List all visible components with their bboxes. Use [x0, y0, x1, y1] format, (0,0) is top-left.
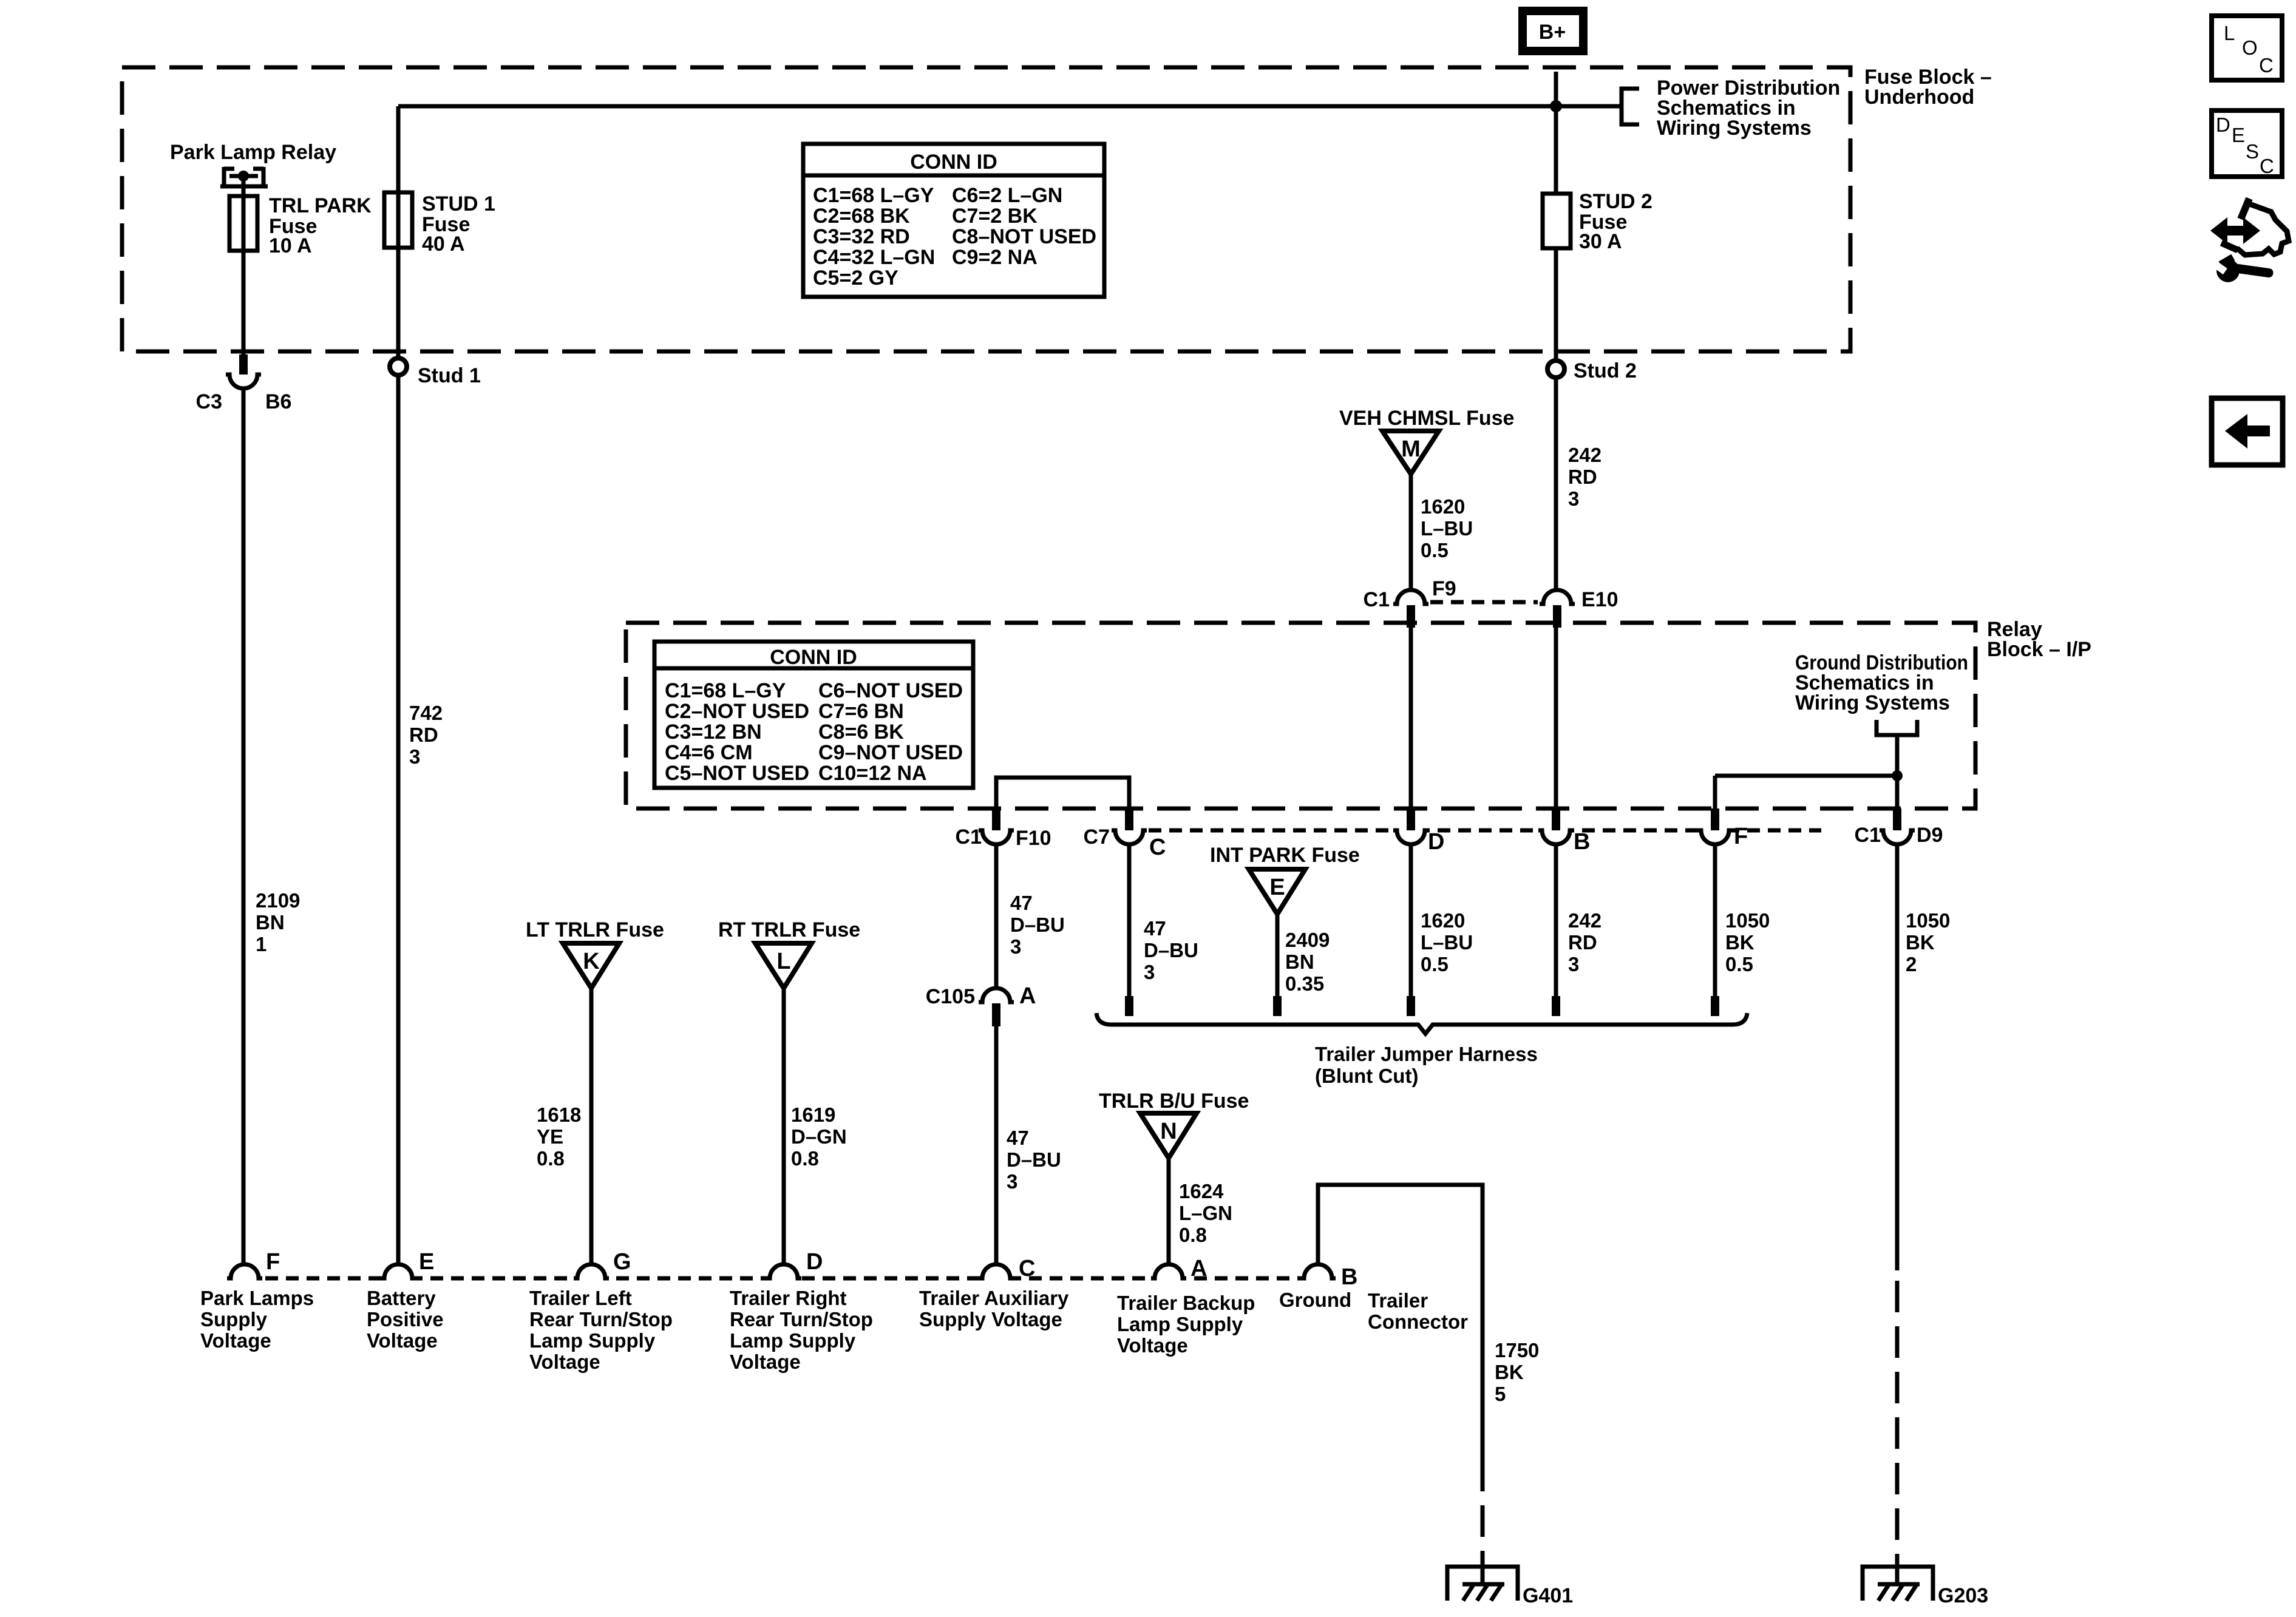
- svg-text:3: 3: [409, 745, 420, 768]
- svg-text:5: 5: [1495, 1383, 1506, 1405]
- svg-text:C7: C7: [1084, 825, 1110, 849]
- connector trailer pin G left turn: [574, 1249, 631, 1278]
- svg-text:0.8: 0.8: [1179, 1224, 1207, 1246]
- svg-text:Ground: Ground: [1279, 1289, 1351, 1311]
- svg-text:F: F: [1734, 824, 1748, 849]
- connector C1 pin D9: [1855, 808, 1943, 847]
- wire 47 D-BU 3 from C1 F10: [996, 844, 1065, 988]
- wire dotted connector row F9 to E10: [1430, 600, 1538, 605]
- connector trailer pin E battery: [381, 1249, 434, 1278]
- connector C1 pin F10: [956, 808, 1051, 850]
- fuse INT PARK triangle E: [1210, 844, 1360, 914]
- svg-text:3: 3: [1010, 935, 1021, 958]
- svg-text:742: 742: [409, 702, 443, 724]
- svg-text:1750: 1750: [1495, 1339, 1539, 1361]
- label trailer right rear turn stop lamp supply voltage: [730, 1287, 873, 1373]
- svg-text:D: D: [1428, 829, 1444, 855]
- svg-text:C4=6 CM: C4=6 CM: [665, 741, 753, 764]
- svg-text:40 A: 40 A: [422, 232, 465, 256]
- svg-text:F: F: [266, 1249, 280, 1275]
- svg-text:RD: RD: [1568, 931, 1597, 954]
- svg-text:C1=68 L–GY: C1=68 L–GY: [813, 184, 934, 207]
- svg-text:C3: C3: [196, 390, 222, 413]
- svg-text:C9–NOT USED: C9–NOT USED: [818, 741, 963, 764]
- svg-text:Connector: Connector: [1368, 1310, 1468, 1333]
- connector trailer pin C auxiliary: [979, 1256, 1035, 1281]
- svg-text:BK: BK: [1906, 931, 1935, 954]
- svg-text:TRL PARK: TRL PARK: [269, 194, 372, 217]
- svg-text:47: 47: [1010, 892, 1033, 914]
- svg-text:B+: B+: [1539, 21, 1566, 44]
- svg-text:C8–NOT USED: C8–NOT USED: [952, 225, 1096, 248]
- svg-text:C: C: [1019, 1256, 1035, 1281]
- svg-text:Trailer: Trailer: [1368, 1289, 1428, 1312]
- icon hand with double arrow and wrench: [2210, 198, 2289, 282]
- svg-text:E: E: [419, 1249, 434, 1275]
- svg-text:Supply: Supply: [200, 1308, 268, 1331]
- svg-text:Trailer Left: Trailer Left: [529, 1287, 632, 1309]
- label Relay Block - I/P: [1987, 618, 2091, 661]
- node junction dot ground branch: [1892, 770, 1903, 781]
- svg-text:3: 3: [1568, 487, 1579, 510]
- svg-text:VEH CHMSL Fuse: VEH CHMSL Fuse: [1339, 407, 1514, 430]
- svg-text:C: C: [2259, 54, 2274, 76]
- wire 1620 L-BU 0.5 chmsl feed: [1411, 474, 1473, 588]
- wire dotted trailer connector row: [245, 1276, 1318, 1281]
- svg-text:Trailer Jumper Harness: Trailer Jumper Harness: [1315, 1043, 1538, 1065]
- svg-text:B: B: [1341, 1264, 1357, 1290]
- svg-text:0.35: 0.35: [1285, 972, 1324, 995]
- svg-text:D9: D9: [1917, 824, 1943, 847]
- wire B+ feed vertical into fuse block: [1554, 72, 1558, 194]
- svg-text:Block – I/P: Block – I/P: [1987, 638, 2091, 661]
- svg-text:RT TRLR Fuse: RT TRLR Fuse: [718, 918, 860, 941]
- svg-text:Park Lamp Relay: Park Lamp Relay: [170, 141, 336, 164]
- svg-text:Wiring Systems: Wiring Systems: [1657, 117, 1812, 140]
- connector pin B: [1538, 808, 1590, 855]
- svg-text:1050: 1050: [1906, 909, 1950, 932]
- icon LOC box: [2212, 16, 2282, 80]
- svg-text:1620: 1620: [1421, 495, 1465, 518]
- svg-text:47: 47: [1007, 1127, 1029, 1149]
- svg-text:1618: 1618: [537, 1103, 581, 1126]
- svg-text:Voltage: Voltage: [730, 1351, 801, 1373]
- ground G401 symbol: [1447, 1567, 1573, 1607]
- wire 1050 BK 2 to G203: [1897, 844, 1950, 1584]
- wire stud2 through relay block to pin B: [1554, 628, 1558, 808]
- svg-text:C1: C1: [956, 825, 982, 849]
- svg-text:0.8: 0.8: [537, 1147, 565, 1170]
- svg-text:Voltage: Voltage: [367, 1329, 438, 1352]
- svg-text:B: B: [1574, 829, 1590, 855]
- wire relay to TRL PARK fuse: [242, 176, 246, 354]
- fuse VEH CHMSL triangle M: [1339, 407, 1514, 474]
- svg-text:C6=2 L–GN: C6=2 L–GN: [952, 184, 1062, 207]
- svg-text:C5=2 GY: C5=2 GY: [813, 266, 898, 290]
- wire 1619 D-GN 0.8 trailer right: [784, 988, 847, 1265]
- svg-text:3: 3: [1568, 953, 1579, 975]
- svg-text:C2–NOT USED: C2–NOT USED: [665, 700, 809, 723]
- svg-text:3: 3: [1144, 961, 1155, 983]
- label Ground Distribution Schematics in Wiring Systems: [1795, 651, 1968, 714]
- svg-text:0.5: 0.5: [1421, 953, 1449, 975]
- svg-text:C105: C105: [926, 985, 975, 1008]
- svg-text:D–BU: D–BU: [1144, 939, 1198, 961]
- wire 2109 BN 1 park lamps supply: [243, 388, 300, 1265]
- svg-text:Battery: Battery: [367, 1287, 436, 1309]
- svg-text:Voltage: Voltage: [200, 1329, 271, 1352]
- svg-text:C10=12 NA: C10=12 NA: [818, 762, 927, 785]
- connector trailer pin A backup: [1151, 1256, 1207, 1281]
- svg-text:C: C: [2260, 155, 2274, 177]
- svg-text:G203: G203: [1938, 1584, 1988, 1607]
- connector C105 pin A: [926, 983, 1036, 1026]
- fuse STUD 1 40A: [384, 192, 495, 256]
- fuse TRL PARK 10A: [229, 194, 372, 257]
- table CONN ID fuse block underhood: [803, 144, 1104, 297]
- ground G203 symbol: [1863, 1567, 1988, 1607]
- fuse TRLR B/U triangle N: [1099, 1090, 1249, 1158]
- svg-text:Stud 2: Stud 2: [1574, 359, 1637, 382]
- svg-text:RD: RD: [1568, 466, 1597, 488]
- fuse block underhood dashed enclosure: [122, 67, 1850, 351]
- svg-text:BK: BK: [1725, 931, 1754, 954]
- svg-text:K: K: [583, 949, 600, 974]
- svg-text:1619: 1619: [791, 1103, 835, 1126]
- svg-text:D–BU: D–BU: [1007, 1148, 1061, 1171]
- fuse LT TRLR triangle K: [526, 918, 664, 988]
- svg-text:C9=2 NA: C9=2 NA: [952, 246, 1038, 269]
- wire ground branch drop to pin F: [1713, 776, 1717, 808]
- svg-text:STUD 2: STUD 2: [1579, 190, 1652, 213]
- svg-text:L–BU: L–BU: [1421, 517, 1473, 540]
- wire 47 D-BU 3 to trailer auxiliary: [996, 1026, 1061, 1265]
- svg-text:0.5: 0.5: [1725, 953, 1753, 975]
- label Power Distribution Schematics in Wiring Systems: [1657, 76, 1840, 140]
- svg-text:G401: G401: [1523, 1584, 1573, 1607]
- svg-text:C4=32 L–GN: C4=32 L–GN: [813, 246, 935, 269]
- icon DESC box: [2212, 110, 2282, 177]
- svg-text:(Blunt Cut): (Blunt Cut): [1315, 1065, 1418, 1087]
- svg-text:Supply Voltage: Supply Voltage: [919, 1308, 1062, 1331]
- svg-text:1050: 1050: [1725, 909, 1770, 932]
- wire bridge jumper C1-F10 to C7-C: [996, 778, 1129, 808]
- icon back arrow box: [2212, 398, 2283, 465]
- brace trailer jumper harness blunt cut: [1096, 1013, 1747, 1087]
- fuse RT TRLR triangle L: [718, 918, 860, 988]
- wire 742 RD 3 battery positive: [398, 375, 443, 1265]
- wire 242 RD 3 stud2 to relay block: [1556, 379, 1601, 588]
- node Stud 2 terminal circle: [1547, 359, 1637, 382]
- svg-text:F10: F10: [1016, 827, 1051, 850]
- svg-text:C1: C1: [1855, 824, 1881, 847]
- wire 2409 BN 0.35 blunt cut: [1273, 914, 1330, 1016]
- label trailer left rear turn stop lamp supply voltage: [529, 1287, 673, 1373]
- wire stud2 below fuse: [1554, 248, 1558, 359]
- svg-text:E: E: [2232, 124, 2245, 146]
- svg-text:3: 3: [1007, 1170, 1017, 1193]
- svg-text:C: C: [1149, 835, 1166, 860]
- wire ground branch horizontal to pin F: [1715, 774, 1897, 778]
- wire 1620 L-BU 0.5 blunt cut from D: [1407, 844, 1473, 1016]
- svg-text:L: L: [776, 949, 790, 974]
- label park lamps supply voltage: [200, 1287, 314, 1352]
- connector C3 pin B6 park lamp feed: [196, 354, 292, 413]
- svg-text:L: L: [2224, 22, 2235, 44]
- svg-text:TRLR B/U Fuse: TRLR B/U Fuse: [1099, 1090, 1249, 1113]
- svg-text:L–GN: L–GN: [1179, 1202, 1232, 1224]
- relay Park Lamp Relay contact symbol: [220, 167, 268, 186]
- svg-text:STUD 1: STUD 1: [422, 192, 495, 215]
- svg-text:RD: RD: [409, 724, 438, 746]
- svg-text:Park Lamps: Park Lamps: [200, 1287, 314, 1309]
- svg-text:O: O: [2242, 36, 2258, 59]
- node Stud 1 terminal circle: [390, 358, 481, 387]
- wire 1618 YE 0.8 trailer left: [537, 988, 591, 1265]
- svg-text:N: N: [1160, 1119, 1177, 1144]
- svg-text:47: 47: [1144, 917, 1166, 940]
- svg-text:CONN ID: CONN ID: [910, 151, 997, 174]
- svg-text:S: S: [2246, 140, 2259, 163]
- connector C7 pin C: [1084, 808, 1166, 860]
- connector trailer pin D right turn: [766, 1249, 823, 1278]
- label battery positive voltage: [367, 1287, 444, 1352]
- wire bus horizontal from stud1 branch to reference bracket: [398, 104, 1622, 109]
- svg-text:2109: 2109: [256, 889, 300, 912]
- svg-text:C1: C1: [1364, 588, 1390, 611]
- svg-text:Trailer Right: Trailer Right: [730, 1287, 847, 1309]
- svg-text:D: D: [806, 1249, 823, 1275]
- wire 47 D-BU 3 blunt cut from C7: [1125, 844, 1198, 1016]
- wire chmsl through relay block to pin D: [1409, 628, 1413, 808]
- wire 1624 L-GN 0.8 backup lamp: [1169, 1158, 1232, 1265]
- svg-text:G: G: [613, 1249, 631, 1275]
- svg-text:10 A: 10 A: [269, 234, 312, 257]
- svg-text:C5–NOT USED: C5–NOT USED: [665, 762, 809, 785]
- svg-text:BN: BN: [256, 911, 285, 934]
- wire 1050 BK 0.5 blunt cut from F: [1711, 844, 1770, 1016]
- svg-text:Trailer Backup: Trailer Backup: [1117, 1292, 1255, 1314]
- node B+ battery positive terminal: [1523, 11, 1583, 51]
- connector trailer pin F park lamps: [227, 1249, 280, 1278]
- label trailer connector: [1368, 1289, 1468, 1333]
- svg-text:Trailer Auxiliary: Trailer Auxiliary: [919, 1287, 1069, 1309]
- svg-text:L–BU: L–BU: [1421, 931, 1473, 954]
- svg-text:Voltage: Voltage: [529, 1351, 600, 1373]
- svg-text:0.8: 0.8: [791, 1147, 819, 1170]
- svg-text:INT PARK Fuse: INT PARK Fuse: [1210, 844, 1360, 867]
- svg-text:30 A: 30 A: [1579, 230, 1622, 253]
- svg-text:BN: BN: [1285, 951, 1314, 973]
- svg-text:2409: 2409: [1285, 929, 1330, 951]
- svg-text:M: M: [1401, 436, 1421, 462]
- svg-text:E10: E10: [1581, 588, 1618, 611]
- svg-text:C3=32 RD: C3=32 RD: [813, 225, 910, 248]
- svg-text:Lamp Supply: Lamp Supply: [529, 1329, 656, 1352]
- relay block I/P dashed enclosure: [626, 623, 1975, 808]
- label Fuse Block - Underhood: [1864, 66, 1992, 109]
- svg-text:Rear Turn/Stop: Rear Turn/Stop: [529, 1308, 673, 1331]
- svg-text:Rear Turn/Stop: Rear Turn/Stop: [730, 1308, 873, 1331]
- svg-text:D–BU: D–BU: [1010, 914, 1065, 936]
- wire 242 RD 3 blunt cut from B: [1552, 844, 1601, 1016]
- svg-text:YE: YE: [537, 1125, 563, 1148]
- wire ground distribution drop: [1895, 735, 1900, 808]
- svg-text:C7=6 BN: C7=6 BN: [818, 700, 904, 723]
- svg-text:Wiring Systems: Wiring Systems: [1795, 691, 1950, 714]
- wire ground 1750 BK 5 to G401: [1318, 1185, 1539, 1584]
- svg-text:2: 2: [1906, 953, 1917, 975]
- connector trailer pin B ground: [1300, 1264, 1357, 1290]
- svg-text:C6–NOT USED: C6–NOT USED: [818, 679, 963, 702]
- svg-text:CONN ID: CONN ID: [770, 646, 857, 669]
- label trailer auxiliary supply voltage: [919, 1287, 1069, 1331]
- connector pin D: [1393, 808, 1444, 855]
- svg-text:242: 242: [1568, 444, 1601, 466]
- svg-text:D: D: [2216, 114, 2230, 136]
- svg-text:Positive: Positive: [367, 1308, 444, 1331]
- wire dotted connector row along relay block bottom: [1149, 829, 1821, 833]
- svg-text:Underhood: Underhood: [1864, 86, 1974, 109]
- svg-text:242: 242: [1568, 909, 1601, 932]
- svg-text:C8=6 BK: C8=6 BK: [818, 720, 904, 744]
- svg-text:C1=68 L–GY: C1=68 L–GY: [665, 679, 786, 702]
- svg-text:BK: BK: [1495, 1361, 1524, 1383]
- svg-text:F9: F9: [1432, 577, 1456, 600]
- wire stud1 branch vertical: [396, 106, 401, 358]
- svg-text:B6: B6: [265, 390, 291, 413]
- connector pin F: [1697, 808, 1748, 849]
- svg-text:C3=12 BN: C3=12 BN: [665, 720, 762, 744]
- svg-text:Stud 1: Stud 1: [418, 364, 481, 387]
- svg-text:D–GN: D–GN: [791, 1125, 847, 1148]
- svg-text:Voltage: Voltage: [1117, 1334, 1188, 1357]
- svg-text:C7=2 BK: C7=2 BK: [952, 205, 1038, 228]
- reference bracket to power distribution schematics: [1622, 89, 1639, 124]
- label trailer backup lamp supply voltage: [1117, 1292, 1255, 1357]
- svg-text:A: A: [1019, 983, 1036, 1009]
- svg-text:1: 1: [256, 933, 267, 955]
- svg-text:Lamp Supply: Lamp Supply: [730, 1329, 856, 1352]
- svg-text:Lamp Supply: Lamp Supply: [1117, 1313, 1243, 1335]
- table CONN ID relay block: [654, 642, 973, 788]
- svg-text:1624: 1624: [1179, 1180, 1224, 1202]
- node junction dot B+ bus: [1550, 100, 1562, 112]
- svg-text:0.5: 0.5: [1421, 539, 1449, 561]
- svg-text:LT TRLR Fuse: LT TRLR Fuse: [526, 918, 664, 941]
- reference bracket to ground distribution schematics: [1877, 720, 1917, 735]
- svg-text:E: E: [1269, 875, 1285, 900]
- connector pin E10: [1540, 588, 1618, 628]
- svg-text:1620: 1620: [1421, 909, 1465, 932]
- svg-text:C2=68 BK: C2=68 BK: [813, 205, 910, 228]
- svg-text:A: A: [1190, 1256, 1207, 1281]
- fuse STUD 2 30A: [1543, 190, 1652, 253]
- connector C1 pin F9: [1364, 577, 1456, 628]
